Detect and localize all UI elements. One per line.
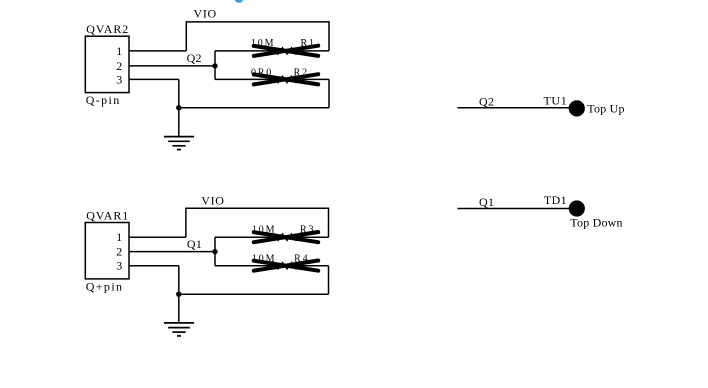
wire net Q2 to TU1: [458, 107, 571, 109]
wire VIO rail (bottom): [186, 207, 329, 209]
svg-text:1: 1: [116, 230, 122, 244]
wire pin3 drop to ground (bottom): [178, 266, 180, 323]
wire node Q1 vertical: [214, 237, 216, 266]
svg-text:VIO: VIO: [201, 193, 224, 207]
svg-text:Top Up: Top Up: [587, 102, 624, 116]
svg-text:Q+pin: Q+pin: [86, 279, 124, 293]
DNP cross over R1: [254, 46, 318, 56]
junction ground node (bottom): [176, 292, 181, 297]
wire pin1 to VIO: [129, 50, 186, 52]
wire bottom return to ground: [179, 107, 329, 109]
junction ground node: [176, 105, 181, 110]
ground symbol (top circuit): [164, 137, 194, 150]
svg-text:QVAR2: QVAR2: [86, 22, 129, 36]
DNP cross over R3: [254, 232, 318, 242]
svg-text:TD1: TD1: [544, 193, 567, 207]
svg-text:1: 1: [116, 44, 122, 58]
wire pin3 (bottom): [129, 265, 179, 267]
wire VIO left drop (bottom): [185, 208, 187, 238]
resistor R1 zigzag: [271, 48, 300, 54]
test point TU1 pad: [569, 100, 585, 116]
svg-text:Q2: Q2: [479, 94, 494, 108]
svg-text:2: 2: [116, 245, 122, 259]
wire VIO right drop to R3: [328, 208, 330, 238]
svg-text:Q1: Q1: [187, 237, 202, 251]
wire R4 branch horizontal: [215, 265, 329, 267]
wire node Q2 vertical: [214, 51, 216, 80]
wire R2 branch horizontal: [215, 78, 329, 80]
ground symbol (bottom circuit): [164, 323, 194, 336]
wire VIO rail (top): [186, 21, 329, 23]
wire R4 right drop: [328, 266, 330, 295]
test point TD1 pad: [569, 200, 585, 216]
svg-text:TU1: TU1: [544, 93, 568, 107]
wire R2 right drop: [328, 79, 330, 107]
junction node Q2: [212, 63, 217, 68]
blue artifact glyph fragment at top edge: [235, 0, 243, 3]
wire pin3: [129, 78, 179, 80]
DNP cross over R2: [254, 74, 318, 84]
svg-text:VIO: VIO: [194, 7, 217, 21]
wire bottom return to ground (bottom): [179, 293, 329, 295]
wire R1 branch horizontal: [215, 50, 329, 52]
wire pin2 to node Q2: [129, 65, 215, 67]
junction node Q1: [212, 249, 217, 254]
connector QVAR2 box: [85, 36, 129, 92]
wire VIO right drop to R1: [328, 21, 330, 51]
wire VIO left drop: [185, 21, 187, 51]
DNP cross over R4: [254, 261, 318, 271]
svg-text:Top Down: Top Down: [570, 216, 622, 230]
wire R3 branch horizontal: [215, 236, 329, 238]
svg-text:Q1: Q1: [479, 195, 494, 209]
resistor R4 zigzag: [271, 263, 300, 269]
wire pin1 to VIO (bottom): [129, 236, 186, 238]
wire pin2 to node Q1: [129, 251, 215, 253]
svg-text:Q2: Q2: [187, 51, 202, 65]
resistor R3 zigzag: [271, 234, 300, 240]
connector QVAR1 box: [85, 223, 129, 279]
wire pin3 drop to ground: [178, 79, 180, 136]
svg-text:Q-pin: Q-pin: [86, 93, 121, 107]
wire net Q1 to TD1: [458, 208, 571, 210]
svg-text:QVAR1: QVAR1: [86, 208, 129, 222]
svg-text:2: 2: [116, 59, 122, 73]
resistor R2 zigzag: [271, 76, 300, 82]
svg-text:3: 3: [116, 72, 122, 86]
svg-text:3: 3: [116, 259, 122, 273]
